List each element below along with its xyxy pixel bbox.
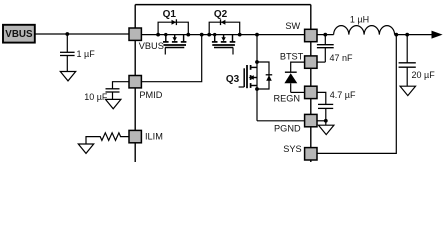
svg-text:SW: SW: [285, 21, 300, 31]
svg-text:VBUS: VBUS: [5, 29, 33, 40]
svg-text:PGND: PGND: [274, 123, 301, 133]
svg-text:47 nF: 47 nF: [330, 53, 354, 63]
svg-text:1 µF: 1 µF: [77, 49, 96, 59]
svg-text:Q3: Q3: [226, 74, 240, 85]
svg-text:10 µF: 10 µF: [84, 92, 108, 102]
svg-text:VBUS: VBUS: [139, 41, 164, 51]
svg-text:PMID: PMID: [139, 90, 162, 100]
svg-text:Q1: Q1: [163, 9, 177, 20]
svg-text:20 µF: 20 µF: [412, 70, 436, 80]
svg-text:BTST: BTST: [280, 51, 304, 61]
svg-text:4.7 µF: 4.7 µF: [330, 90, 356, 100]
svg-text:REGN: REGN: [273, 94, 300, 104]
svg-text:Q2: Q2: [214, 9, 228, 20]
svg-text:ILIM: ILIM: [145, 132, 163, 142]
svg-text:SYS: SYS: [283, 144, 301, 154]
svg-text:1 µH: 1 µH: [350, 15, 369, 25]
